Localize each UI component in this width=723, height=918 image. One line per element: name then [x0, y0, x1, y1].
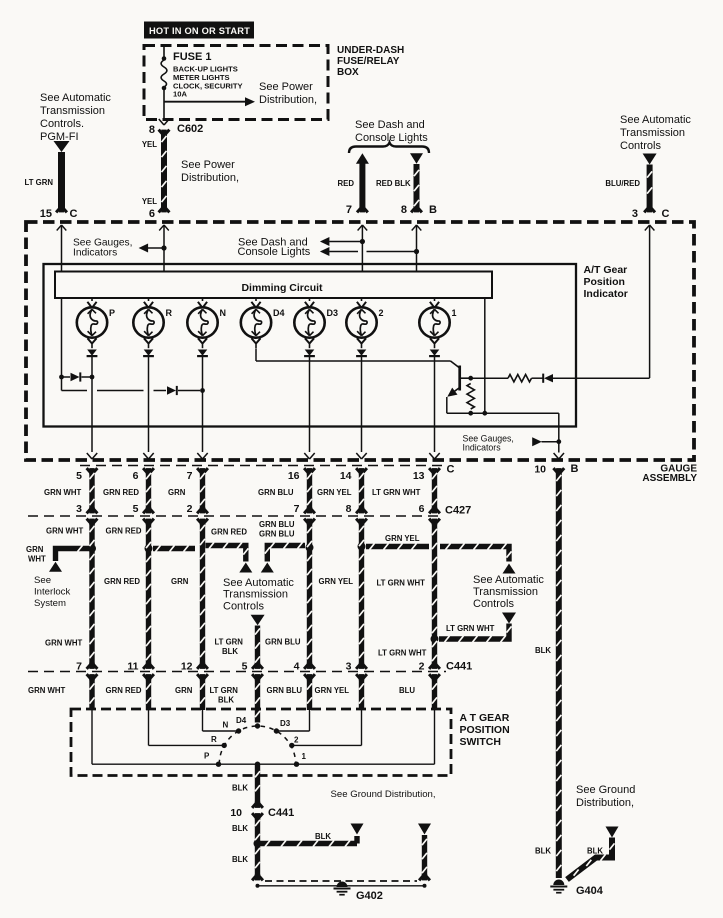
svg-text:3: 3: [346, 661, 352, 673]
svg-text:ASSEMBLY: ASSEMBLY: [642, 473, 697, 484]
svg-text:Position: Position: [584, 276, 625, 288]
svg-text:11: 11: [127, 661, 138, 673]
diode D8 (base, pointing left): [544, 374, 553, 382]
wire: switch common BLK down: [255, 764, 260, 805]
wire: pin8 RED/BLK inside gauge: [416, 225, 418, 272]
svg-text:Controls: Controls: [473, 598, 514, 610]
svg-text:Console Lights: Console Lights: [238, 246, 311, 258]
svg-text:See Automatic: See Automatic: [223, 577, 294, 589]
svg-text:BLK: BLK: [218, 696, 234, 705]
svg-text:See Automatic: See Automatic: [40, 92, 111, 104]
svg-text:4: 4: [294, 661, 300, 673]
svg-text:LT GRN: LT GRN: [215, 638, 244, 647]
fuse FUSE 1 (BACK-UP LIGHTS, METER LIGHTS, CLOCK, SECURITY 10A): [163, 46, 165, 61]
connector C427 pin 7: [304, 519, 308, 524]
branch GRN BLU elbow to See ATC arrow: [267, 546, 305, 562]
diode D6 (15-wire to P bulb): [71, 373, 80, 381]
svg-text:D4: D4: [273, 308, 285, 318]
svg-text:YEL: YEL: [142, 140, 157, 149]
svg-text:BLK: BLK: [232, 824, 248, 833]
svg-text:BLU: BLU: [399, 686, 415, 695]
svg-text:8: 8: [346, 503, 352, 515]
junction dot M2 + stub right: [145, 545, 153, 553]
wire: D4 bulb elbow to D3 column: [255, 349, 257, 362]
wire stubs C441 into switch box: [89, 678, 94, 711]
wire: pin15 LT GRN inside gauge (x=61.5): [61, 225, 63, 377]
connector C line (pins 5,6,7,16,14,13): [80, 465, 443, 467]
svg-text:15: 15: [40, 208, 52, 220]
svg-text:GRN BLU: GRN BLU: [259, 530, 295, 539]
svg-text:Controls: Controls: [620, 140, 661, 152]
off-page arrow BLK into G404: [606, 827, 619, 838]
connector C441 pin 3: [356, 664, 360, 669]
svg-text:See Automatic: See Automatic: [473, 574, 544, 586]
svg-text:10: 10: [534, 464, 546, 476]
svg-text:Transmission: Transmission: [223, 589, 288, 601]
connector C427 pin 8: [356, 519, 360, 524]
svg-text:7: 7: [187, 470, 193, 482]
svg-text:14: 14: [340, 470, 352, 482]
flare at G402 wire bottom: [252, 876, 256, 881]
indicator bulb 2: [361, 298, 363, 301]
connector C441: [28, 671, 446, 673]
svg-text:GRN: GRN: [26, 545, 44, 554]
off-page arrow to PGM-FI (down): [54, 141, 70, 152]
svg-text:See Automatic: See Automatic: [620, 114, 691, 126]
gauge top border crossings (thin up arrows): [57, 225, 62, 231]
left diode network: node row y=377: [59, 375, 64, 380]
svg-text:BLK: BLK: [232, 784, 248, 793]
connector C pin 5: [87, 468, 91, 473]
wire from emitter down/right: [446, 397, 448, 413]
wire below diode N: [202, 357, 204, 453]
wires C to C427: [89, 470, 94, 510]
svg-text:FUSE/RELAY: FUSE/RELAY: [337, 56, 400, 67]
svg-text:GRN BLU: GRN BLU: [265, 638, 301, 647]
svg-text:Transmission: Transmission: [40, 105, 105, 117]
connector C427 pin 3: [87, 519, 91, 524]
svg-text:System: System: [34, 598, 66, 609]
svg-text:BLK: BLK: [535, 847, 551, 856]
off-page arrow: See Interlock System (up): [49, 562, 62, 572]
svg-text:BLK: BLK: [587, 847, 603, 856]
svg-text:GRN RED: GRN RED: [106, 527, 142, 536]
svg-text:YEL: YEL: [142, 197, 157, 206]
transistor Q1 emitter arrow: [451, 388, 460, 394]
svg-text:BLU/RED: BLU/RED: [605, 179, 640, 188]
svg-text:D4: D4: [236, 716, 247, 725]
svg-text:R: R: [166, 308, 173, 318]
svg-text:Dimming Circuit: Dimming Circuit: [241, 282, 323, 294]
diode under bulb R: [144, 350, 154, 356]
connector C441 pin 4: [304, 664, 308, 669]
svg-text:Distribution,: Distribution,: [181, 172, 239, 184]
connector B pin 10 (BLK wire): [553, 468, 557, 473]
diode D7 (to N bulb): [167, 386, 176, 394]
wire below diode D3: [309, 357, 311, 453]
svg-text:LT GRN: LT GRN: [25, 178, 54, 187]
svg-text:7: 7: [294, 503, 300, 515]
svg-text:RED BLK: RED BLK: [376, 179, 411, 188]
svg-text:Interlock: Interlock: [34, 587, 70, 598]
svg-text:GRN: GRN: [168, 488, 186, 497]
indicator bulb N: [202, 298, 204, 301]
svg-text:6: 6: [419, 503, 425, 515]
junction dot + branch BLK to ground distribution: [254, 840, 262, 848]
svg-text:UNDER-DASH: UNDER-DASH: [337, 45, 404, 56]
svg-text:BLK: BLK: [315, 832, 331, 841]
svg-text:13: 13: [413, 470, 425, 482]
second off-page arrow into G402: [418, 824, 431, 835]
svg-text:GRN YEL: GRN YEL: [315, 686, 350, 695]
svg-text:LT GRN WHT: LT GRN WHT: [378, 649, 427, 658]
svg-text:LT GRN: LT GRN: [210, 686, 239, 695]
diode under bulb 1: [430, 350, 440, 356]
svg-text:B: B: [571, 463, 579, 475]
svg-text:BOX: BOX: [337, 67, 359, 78]
connector C441 pin 7: [87, 664, 91, 669]
connector C pin 7: [197, 468, 201, 473]
svg-text:See Power: See Power: [181, 159, 235, 171]
off-page arrow: See ATC (up): [503, 564, 516, 574]
wire: YEL from fuse C602 to gauge pin 6: [161, 131, 167, 208]
connector C441 pin 11: [143, 664, 147, 669]
indicator bulb R: [148, 298, 150, 301]
connector C427: [28, 515, 440, 517]
svg-text:G404: G404: [576, 885, 604, 897]
dimming circuit box: [55, 272, 492, 299]
svg-text:BLK: BLK: [222, 647, 238, 656]
under-dash fuse/relay box (dashed): [144, 46, 328, 120]
connector C427 pin 6: [429, 519, 433, 524]
connector C602 (pin 8): [159, 119, 164, 125]
brace over RED and RED/BLK wires: [349, 143, 429, 154]
svg-text:SWITCH: SWITCH: [460, 736, 501, 748]
svg-text:GRN WHT: GRN WHT: [45, 639, 82, 648]
svg-text:N: N: [220, 308, 227, 318]
svg-text:Indicator: Indicator: [584, 288, 628, 300]
wire: pin6 YEL inside gauge down to dimming circuit: [163, 225, 165, 272]
svg-text:POSITION: POSITION: [460, 724, 510, 736]
label: HOT IN ON OR START: [144, 22, 254, 39]
svg-text:GRN BLU: GRN BLU: [258, 488, 294, 497]
connector C441 pin 12: [197, 664, 201, 669]
svg-text:Indicators: Indicators: [73, 248, 117, 259]
junction dot M1: [88, 545, 96, 553]
wire: BLU/RED to gauge pin 3: [647, 165, 653, 209]
svg-text:GRN YEL: GRN YEL: [319, 577, 354, 586]
branch: See ATC arrow down to M7 (LT GRN WHT): [502, 613, 516, 624]
connector C441 pin 5: [252, 664, 256, 669]
connector C427 pin 5: [143, 519, 147, 524]
svg-text:C441: C441: [268, 807, 294, 819]
svg-text:HOT IN ON OR START: HOT IN ON OR START: [149, 26, 250, 36]
wire M7: LT GRN WHT: [432, 521, 437, 666]
svg-text:See Power: See Power: [259, 81, 313, 93]
svg-text:10: 10: [230, 807, 242, 819]
svg-text:6: 6: [133, 470, 139, 482]
switch contacts: [216, 762, 221, 767]
svg-text:7: 7: [346, 204, 352, 216]
svg-text:C: C: [662, 208, 670, 220]
branch GRN RED elbow to See ATC arrow: [206, 546, 246, 562]
svg-text:Indicators: Indicators: [463, 443, 502, 453]
wire M2: GRN RED: [146, 521, 151, 666]
svg-text:Transmission: Transmission: [473, 586, 538, 598]
svg-text:D3: D3: [280, 719, 291, 728]
svg-text:P: P: [204, 752, 210, 761]
svg-text:G402: G402: [356, 890, 383, 902]
svg-text:C: C: [447, 464, 455, 476]
svg-text:Console Lights: Console Lights: [355, 132, 428, 144]
svg-text:5: 5: [76, 470, 82, 482]
connector C pin 16: [304, 468, 308, 473]
wire M4: LT GRN/BLK from See ATC arrow to C441 pin5: [251, 615, 265, 625]
connector C427 pin 2: [197, 519, 201, 524]
diode under bulb P: [87, 350, 97, 356]
connector C pin 14: [356, 468, 360, 473]
svg-text:3: 3: [632, 208, 638, 220]
svg-text:RED: RED: [338, 179, 355, 188]
wire: emitter node to pin 10 (down): [558, 413, 560, 452]
wire below diode 1: [434, 357, 436, 453]
wire BLK below connector: [255, 815, 260, 877]
svg-text:2: 2: [379, 308, 384, 318]
svg-text:5: 5: [133, 503, 139, 515]
ground G402: [337, 882, 348, 887]
svg-text:2: 2: [419, 661, 425, 673]
gauge assembly box (dashed): [26, 222, 694, 460]
svg-text:BLK: BLK: [535, 646, 551, 655]
svg-text:R: R: [211, 735, 217, 744]
switch rotary contact arc (dashed): [219, 726, 295, 764]
svg-text:GRN WHT: GRN WHT: [44, 488, 81, 497]
svg-text:GRN BLU: GRN BLU: [267, 686, 303, 695]
ground bus G402: [265, 880, 417, 882]
note+arrow: See Gauges, Indicators (top): [161, 245, 166, 250]
transistor Q1: [458, 366, 461, 391]
wire: pin3 BLU/RED inside gauge to transistor base: [649, 225, 651, 378]
wire: RED (gauge pin 7) with up arrow: [356, 153, 369, 164]
wire: BLK pin10/B down right side: [556, 470, 562, 878]
indicator bulb D3: [309, 298, 311, 301]
svg-text:1: 1: [452, 308, 457, 318]
wire from dimming circuit to transistor emitter node: [484, 298, 486, 413]
svg-text:BLK: BLK: [232, 855, 248, 864]
gauge bottom border crossings (thin arrows): [87, 453, 92, 459]
wire M6: GRN YEL: [359, 521, 364, 666]
connector C441 pin 2: [429, 664, 433, 669]
connector C441 pin 10 (pigtail): [252, 803, 256, 808]
transistor Q1 base-in diagonal: [451, 361, 460, 368]
wire: RED/BLK (gauge pin 8) with down arrow: [410, 153, 423, 164]
indicator bulb 1: [434, 298, 436, 301]
A/T gear position switch box (dashed): [71, 709, 451, 776]
svg-text:FUSE 1: FUSE 1: [173, 51, 212, 63]
svg-text:P: P: [109, 308, 115, 318]
svg-text:C: C: [70, 208, 78, 220]
svg-text:8: 8: [401, 204, 407, 216]
svg-text:GRN RED: GRN RED: [104, 577, 140, 586]
wire: x61.5 down and right along y390: [61, 377, 63, 391]
connector C pin 13: [429, 468, 433, 473]
junction dot M6 + GRN YEL bar to See ATC (right): [358, 543, 366, 551]
indicator bulb P: [91, 298, 93, 301]
svg-text:WHT: WHT: [28, 555, 46, 564]
svg-text:GRN: GRN: [175, 686, 193, 695]
svg-text:See Ground Distribution,: See Ground Distribution,: [331, 789, 436, 800]
svg-text:6: 6: [149, 208, 155, 220]
svg-text:See Dash and: See Dash and: [355, 119, 425, 131]
svg-text:C441: C441: [446, 661, 472, 673]
off-page arrow (down) to A/T controls: [643, 154, 657, 165]
svg-text:GRN WHT: GRN WHT: [28, 686, 65, 695]
wire: LT GRN to gauge pin 15: [58, 152, 65, 208]
svg-text:C427: C427: [445, 505, 471, 517]
svg-text:A/T Gear: A/T Gear: [584, 264, 628, 276]
svg-text:GRN YEL: GRN YEL: [317, 488, 352, 497]
svg-text:8: 8: [149, 124, 155, 136]
arrow: see power distribution (from fuse): [164, 101, 247, 103]
resistor R2 (emitter-base): [467, 384, 474, 410]
svg-text:GRN WHT: GRN WHT: [46, 527, 83, 536]
svg-text:GRN: GRN: [171, 577, 189, 586]
switch wires to contacts: [91, 709, 93, 764]
svg-text:10A: 10A: [173, 90, 187, 99]
svg-text:2: 2: [294, 736, 299, 745]
wire below diode P: [91, 357, 93, 453]
svg-text:GRN RED: GRN RED: [106, 686, 142, 695]
diode under bulb D3: [305, 350, 315, 356]
svg-text:5: 5: [242, 661, 248, 673]
svg-text:7: 7: [76, 661, 82, 673]
svg-text:D3: D3: [327, 308, 339, 318]
wire below diode R: [148, 357, 150, 453]
svg-text:Transmission: Transmission: [620, 127, 685, 139]
wire M3: GRN: [200, 521, 205, 666]
wire M5: GRN BLU: [307, 521, 312, 666]
connector C pin 6: [143, 468, 147, 473]
svg-text:LT GRN WHT: LT GRN WHT: [446, 624, 495, 633]
svg-text:N: N: [223, 721, 229, 730]
svg-text:GRN YEL: GRN YEL: [385, 534, 420, 543]
A/T gear position indicator inner box: [44, 264, 577, 427]
resistor R1 (base series): [471, 377, 508, 379]
svg-text:Controls: Controls: [223, 601, 264, 613]
svg-text:B: B: [429, 204, 437, 216]
svg-text:16: 16: [288, 470, 300, 482]
ground G404: [553, 880, 564, 886]
svg-text:Distribution,: Distribution,: [576, 797, 634, 809]
svg-text:12: 12: [181, 661, 193, 673]
svg-text:See Ground: See Ground: [576, 784, 635, 796]
wire: pin7 RED inside gauge: [361, 225, 363, 272]
diode under bulb 2: [357, 350, 367, 356]
wire below diode 2: [361, 357, 363, 453]
svg-text:3: 3: [76, 503, 82, 515]
diode under bulb N: [198, 350, 208, 356]
svg-text:GRN RED: GRN RED: [211, 528, 247, 537]
indicator bulb D4: [255, 298, 257, 301]
svg-text:1: 1: [302, 752, 307, 761]
svg-text:Controls.: Controls.: [40, 118, 84, 130]
svg-text:GRN RED: GRN RED: [103, 488, 139, 497]
svg-text:A T GEAR: A T GEAR: [460, 712, 510, 724]
svg-text:C602: C602: [177, 123, 203, 135]
wire: common bus below D3/2/1 diodes to transistor base: [256, 360, 451, 362]
svg-text:2: 2: [187, 503, 193, 515]
branch: GRN WHT to interlock system: [56, 549, 93, 562]
svg-text:Distribution,: Distribution,: [259, 94, 317, 106]
svg-text:GRN BLU: GRN BLU: [259, 520, 295, 529]
wire M1: GRN WHT (pin3 to C441 pin7): [89, 521, 94, 666]
switch common row: [92, 763, 435, 765]
svg-text:LT GRN WHT: LT GRN WHT: [377, 579, 426, 588]
svg-text:See: See: [34, 575, 51, 586]
svg-text:LT GRN WHT: LT GRN WHT: [372, 488, 421, 497]
